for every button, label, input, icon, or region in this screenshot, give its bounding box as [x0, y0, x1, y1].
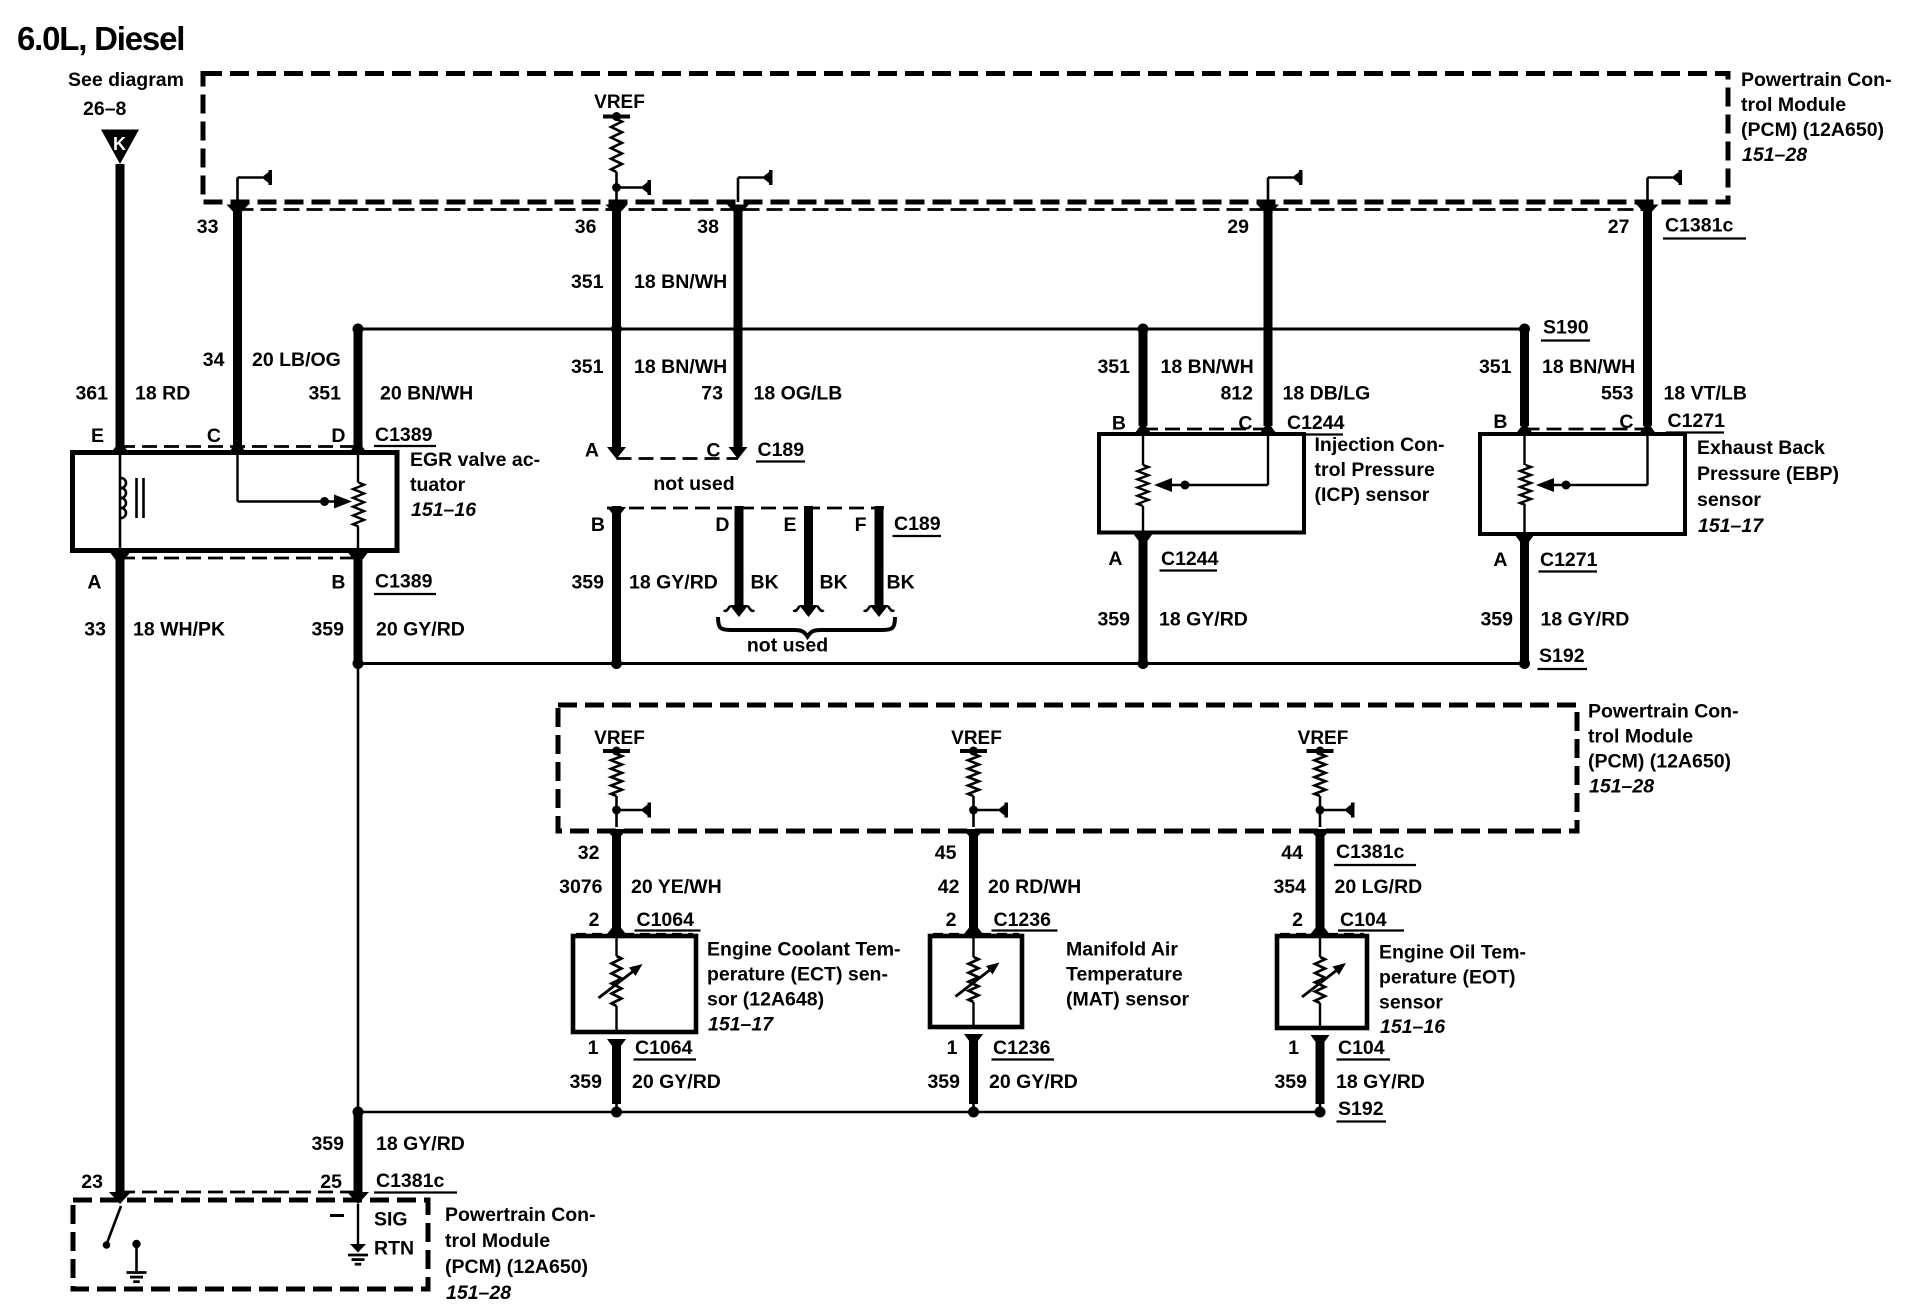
pin 45 label	[935, 842, 957, 864]
label 351 18 BN/WH (ICP)	[1097, 356, 1253, 378]
connector C1271 label (top)	[1666, 410, 1725, 433]
C1064 pin 2 arrow	[607, 922, 626, 936]
svg-text:18 GY/RD: 18 GY/RD	[1336, 1071, 1425, 1093]
svg-text:29: 29	[1227, 216, 1249, 238]
svg-text:A: A	[1493, 549, 1507, 571]
svg-text:45: 45	[935, 842, 957, 864]
C189 pin B label	[591, 514, 605, 536]
svg-text:trol Module: trol Module	[1588, 726, 1693, 748]
connector C1244 dashed line	[1143, 428, 1268, 431]
not used brace	[718, 617, 895, 637]
splice S190	[1519, 317, 1590, 341]
EGR pin A arrow	[111, 553, 130, 566]
svg-text:20 LG/RD: 20 LG/RD	[1335, 876, 1423, 898]
svg-text:359: 359	[311, 619, 344, 641]
svg-text:18 DB/LG: 18 DB/LG	[1283, 383, 1371, 405]
label 3076 20 YE/WH	[559, 876, 722, 898]
PCM pin 27 arm	[1648, 170, 1683, 202]
svg-text:B: B	[1493, 411, 1507, 433]
wire (return bus to bus 2 link)	[357, 664, 360, 1113]
svg-text:C1236: C1236	[994, 909, 1052, 931]
C189 pin D stub (BK, not used)	[724, 506, 754, 617]
svg-text:B: B	[1112, 413, 1126, 435]
wire 553 18 VT/LB (pin 27 to EBP C)	[1643, 206, 1652, 426]
wire 359 20 GY/RD (ECT)	[612, 1042, 621, 1112]
svg-text:18 BN/WH: 18 BN/WH	[1542, 356, 1635, 378]
title	[17, 20, 184, 57]
svg-text:S190: S190	[1543, 317, 1589, 339]
junction node at 617/329	[611, 324, 622, 335]
svg-text:(PCM) (12A650): (PCM) (12A650)	[1741, 119, 1884, 141]
svg-text:36: 36	[575, 216, 597, 238]
junction node at 973/1112	[968, 1107, 979, 1118]
label BK (pin E)	[820, 572, 848, 594]
svg-text:VREF: VREF	[1298, 728, 1349, 749]
connector C1064 label (bottom)	[634, 1037, 697, 1060]
internal switch (pin 23)	[103, 1206, 121, 1249]
label 359 20 GY/RD (MAT)	[927, 1071, 1077, 1093]
wire 359 18 GY/RD (EBP A to S192)	[1520, 539, 1529, 662]
C189 pin B arrow	[607, 507, 626, 519]
svg-text:C1064: C1064	[635, 1037, 693, 1059]
ICP pin C arrow	[1259, 422, 1278, 435]
ECT thermistor	[599, 936, 643, 1032]
label 359 18 GY/RD (ICP)	[1097, 609, 1247, 631]
svg-text:1: 1	[1288, 1037, 1299, 1059]
EGR pin D arrow	[349, 441, 368, 454]
pin 29 label	[1227, 216, 1249, 238]
svg-text:C: C	[1619, 411, 1633, 433]
MAT thermistor	[956, 936, 1000, 1027]
svg-text:K: K	[113, 134, 126, 154]
wire 359 20 GY/RD (EGR B to return bus)	[354, 554, 363, 662]
svg-text:18 BN/WH: 18 BN/WH	[634, 356, 727, 378]
pin 44 label	[1281, 842, 1303, 864]
C189 pin E label	[783, 514, 796, 536]
connector C1381c label (bottom)	[374, 1170, 457, 1193]
svg-text:RTN: RTN	[374, 1238, 414, 1260]
svg-text:BK: BK	[751, 572, 779, 594]
SIG RTN ground (pin 25)	[348, 1204, 368, 1264]
svg-text:trol Pressure: trol Pressure	[1315, 459, 1435, 481]
svg-text:Engine Oil Tem-: Engine Oil Tem-	[1379, 942, 1526, 964]
svg-text:1: 1	[947, 1037, 958, 1059]
svg-text:E: E	[783, 514, 796, 536]
EBP wiper (from pin C)	[1536, 434, 1648, 492]
svg-text:C1381c: C1381c	[376, 1170, 444, 1192]
label 351 18 BN/WH (upper)	[571, 271, 727, 293]
EGR pin C label	[207, 425, 221, 447]
svg-text:151–16: 151–16	[411, 499, 476, 521]
svg-text:C1064: C1064	[637, 909, 695, 931]
svg-text:151–28: 151–28	[1589, 776, 1654, 798]
svg-text:F: F	[855, 514, 867, 536]
VREF terminal (PCM middle, pin 32)	[594, 728, 645, 827]
svg-text:Injection Con-: Injection Con-	[1315, 434, 1445, 456]
ICP wiper (from pin C)	[1154, 434, 1268, 492]
svg-text:351: 351	[1097, 356, 1130, 378]
C189 pin E stub (BK, not used)	[794, 506, 824, 617]
svg-text:18 RD: 18 RD	[135, 383, 190, 405]
PCM top dashed box (Powertrain Control Module)	[203, 74, 1728, 203]
C189 pin D label	[715, 514, 729, 536]
connector C1381c dashed line (bottom)	[120, 1191, 358, 1194]
EGR pin E arrow	[111, 441, 130, 454]
svg-text:S192: S192	[1338, 1098, 1384, 1120]
svg-text:C1381c: C1381c	[1665, 215, 1733, 237]
label 812 18 DB/LG	[1220, 383, 1370, 405]
MAT pin 1 label	[947, 1037, 958, 1059]
svg-text:Powertrain Con-: Powertrain Con-	[1588, 701, 1739, 723]
connector C1236 label (top)	[992, 909, 1058, 931]
C104 pin 2 label	[1292, 909, 1303, 931]
svg-text:26–8: 26–8	[83, 98, 127, 120]
svg-text:359: 359	[1097, 609, 1130, 631]
PCM pin 45 arm	[969, 803, 1008, 818]
connector C1389 label (bottom)	[374, 571, 436, 595]
svg-text:BK: BK	[820, 572, 848, 594]
svg-text:VREF: VREF	[594, 92, 645, 113]
svg-text:2: 2	[946, 909, 957, 931]
EGR valve actuator box	[73, 453, 398, 551]
EGR pin B arrow	[349, 553, 368, 566]
svg-text:trol Module: trol Module	[445, 1230, 550, 1252]
svg-text:E: E	[91, 425, 104, 447]
svg-text:151–16: 151–16	[1380, 1016, 1445, 1038]
svg-text:20 LB/OG: 20 LB/OG	[252, 349, 341, 371]
svg-text:151–28: 151–28	[1742, 144, 1807, 166]
svg-text:(PCM) (12A650): (PCM) (12A650)	[445, 1256, 588, 1278]
pin 23 connector arrow	[109, 1192, 131, 1204]
junction node at 1143/663	[1138, 658, 1149, 669]
C189 pin A foot	[607, 447, 626, 459]
svg-text:C1389: C1389	[375, 424, 433, 446]
junction node at 358/663	[353, 658, 364, 669]
pin 36 connector arrow	[606, 205, 628, 217]
VREF terminal (PCM middle, pin 44)	[1298, 728, 1349, 827]
pin 23 label	[81, 1171, 103, 1193]
wire 351 18 BN/WH (pin 36 to bus)	[612, 206, 621, 326]
MAT pin 1 arrow	[964, 1034, 983, 1047]
svg-text:18 GY/RD: 18 GY/RD	[1541, 609, 1630, 631]
wire 351 18 BN/WH (bus to ICP B)	[1139, 331, 1148, 426]
splice S192 (upper)	[1519, 645, 1587, 669]
EOT connector dashes	[1280, 933, 1364, 935]
connector C1236 label (bottom)	[992, 1037, 1055, 1060]
EGR pin A label	[87, 572, 101, 594]
connector C1389 dashed line (top)	[120, 445, 358, 448]
ICP pin C label	[1238, 413, 1252, 435]
MAT connector dashes	[933, 933, 1019, 935]
EGR wiper (from pin C)	[238, 453, 353, 509]
pin 27 connector arrow	[1637, 205, 1659, 217]
wire 359 18 GY/RD (EOT)	[1316, 1038, 1325, 1112]
ECT connector dashes	[576, 933, 693, 935]
svg-text:18 GY/RD: 18 GY/RD	[376, 1133, 465, 1155]
svg-text:18 BN/WH: 18 BN/WH	[1161, 356, 1254, 378]
label 34 20 LB/OG	[203, 349, 341, 371]
PCM pin 36 arm	[612, 180, 651, 195]
pin 38 label	[697, 216, 719, 238]
svg-text:A: A	[1108, 548, 1122, 570]
svg-text:C: C	[207, 425, 221, 447]
connector C189 dashed line (lower)	[607, 507, 884, 510]
svg-text:Engine Coolant Tem-: Engine Coolant Tem-	[707, 939, 901, 961]
label 359 20 GY/RD	[311, 619, 464, 641]
VREF terminal (PCM middle, pin 45)	[951, 728, 1002, 827]
svg-text:perature (EOT): perature (EOT)	[1379, 967, 1516, 989]
connector C189 label (upper)	[756, 439, 805, 462]
svg-text:151–17: 151–17	[708, 1014, 774, 1036]
ICP pin B arrow	[1134, 422, 1153, 435]
wire 73 18 OG/LB (pin 38 to C189 C)	[734, 206, 743, 450]
svg-text:SIG: SIG	[374, 1209, 408, 1231]
connector K (triangle from diagram 26-8)	[101, 130, 139, 165]
connector C1389 dashed line (bottom)	[120, 557, 358, 560]
label 359 18 GY/RD (EOT)	[1274, 1071, 1424, 1093]
svg-text:20 GY/RD: 20 GY/RD	[376, 619, 465, 641]
VREF bus wire 351 (horizontal)	[358, 328, 1525, 331]
EOT label	[1379, 942, 1526, 1039]
signal return bus 2 (horizontal)	[358, 1111, 1320, 1114]
MAT sensor box	[930, 936, 1022, 1027]
wire 354 20 LG/RD	[1316, 833, 1325, 928]
ECT pin 1 arrow	[607, 1039, 626, 1052]
minus sign	[330, 1214, 344, 1217]
wire 361 18 RD (circuit K to EGR pin E)	[116, 164, 125, 447]
svg-text:151–28: 151–28	[446, 1282, 511, 1304]
svg-text:361: 361	[75, 383, 108, 405]
PCM bottom dashed box (Powertrain Control Module)	[73, 1200, 428, 1289]
junction node at 617/663	[611, 658, 622, 669]
connector C1271 label (bottom)	[1539, 549, 1598, 572]
ECT sensor box	[573, 936, 696, 1032]
pin 33 connector arrow	[227, 205, 249, 217]
EBP pin B arrow	[1515, 422, 1534, 435]
svg-text:VREF: VREF	[594, 728, 645, 749]
svg-text:2: 2	[1292, 909, 1303, 931]
C104 pin 2 arrow	[1311, 922, 1330, 936]
EGR pin B label	[331, 572, 345, 594]
C1381c label (top right)	[1663, 215, 1746, 239]
connector C1244 label (bottom)	[1160, 548, 1219, 571]
label 42 20 RD/WH	[938, 876, 1081, 898]
svg-text:20 BN/WH: 20 BN/WH	[380, 383, 473, 405]
pin 45 connector arrow	[963, 829, 985, 841]
svg-text:C1271: C1271	[1668, 410, 1726, 432]
C189 pin A label	[585, 440, 599, 462]
svg-text:354: 354	[1273, 876, 1306, 898]
svg-text:A: A	[87, 572, 101, 594]
connector C189 label (lower)	[893, 513, 942, 536]
PCM pin 44 arm	[1316, 803, 1355, 818]
svg-text:351: 351	[1479, 356, 1512, 378]
svg-text:351: 351	[308, 383, 341, 405]
svg-text:359: 359	[571, 572, 604, 594]
label 351 18 BN/WH (lower)	[571, 356, 727, 378]
wire 3076 20 YE/WH	[612, 833, 621, 928]
svg-text:not used: not used	[747, 635, 828, 657]
svg-text:25: 25	[320, 1171, 342, 1193]
in-line connector C1381c dashed line	[238, 208, 1648, 211]
svg-text:151–17: 151–17	[1698, 515, 1764, 537]
PCM middle label	[1588, 701, 1739, 798]
splice S192 (lower)	[1315, 1098, 1387, 1122]
label 553 18 VT/LB	[1601, 383, 1747, 405]
pin 32 connector arrow	[606, 829, 628, 841]
wire 351 18 BN/WH (S190 to EBP B)	[1520, 331, 1529, 426]
svg-text:Temperature: Temperature	[1066, 964, 1183, 986]
svg-text:20 GY/RD: 20 GY/RD	[632, 1071, 721, 1093]
svg-text:18 VT/LB: 18 VT/LB	[1664, 383, 1747, 405]
ICP sensor box	[1099, 434, 1304, 533]
label 354 20 LG/RD	[1273, 876, 1422, 898]
connector C104 label (bottom)	[1337, 1037, 1391, 1060]
ICP pin B label	[1112, 413, 1126, 435]
PCM pin 33 arm	[238, 170, 273, 202]
junction node at 358/1112	[353, 1107, 364, 1118]
C1381c label (middle)	[1334, 841, 1416, 865]
svg-text:C: C	[706, 440, 720, 462]
PCM bottom label	[445, 1204, 596, 1304]
connector C1244 label (top)	[1286, 412, 1345, 435]
pin 38 connector arrow	[727, 205, 749, 217]
label 361 18 RD	[75, 383, 190, 405]
svg-text:2: 2	[589, 909, 600, 931]
wire 33 18 WH/PK (EGR A down)	[116, 554, 125, 1192]
svg-text:C189: C189	[758, 439, 805, 461]
signal return bus wire 359 (horizontal)	[358, 662, 1525, 665]
svg-text:not used: not used	[653, 473, 734, 495]
EGR pin E label	[91, 425, 104, 447]
PCM pin 29 arm	[1268, 170, 1303, 202]
C1064 pin 2 label	[589, 909, 600, 931]
svg-text:sensor: sensor	[1379, 992, 1443, 1014]
svg-text:Powertrain Con-: Powertrain Con-	[445, 1204, 596, 1226]
svg-text:73: 73	[701, 383, 723, 405]
PCM middle dashed box (Powertrain Control Module)	[558, 705, 1577, 831]
label 33 18 WH/PK	[84, 619, 225, 641]
svg-text:D: D	[715, 514, 729, 536]
svg-text:351: 351	[571, 271, 604, 293]
pin 25 connector arrow	[347, 1192, 369, 1204]
ICP pin A label	[1108, 548, 1122, 570]
C1236 pin 2 arrow	[964, 922, 983, 936]
svg-text:Powertrain Con-: Powertrain Con-	[1741, 69, 1892, 91]
pin 27 label	[1608, 216, 1630, 238]
EBP pin C arrow	[1638, 422, 1657, 435]
ECT pin 1 label	[588, 1037, 599, 1059]
svg-text:C1236: C1236	[993, 1037, 1051, 1059]
MAT label	[1066, 939, 1190, 1011]
svg-text:trol Module: trol Module	[1741, 94, 1846, 116]
svg-text:C1244: C1244	[1287, 412, 1345, 434]
svg-text:(MAT) sensor: (MAT) sensor	[1066, 989, 1190, 1011]
EBP pin B label	[1493, 411, 1507, 433]
wire 351 18 BN/WH (bus to C189 A)	[612, 331, 621, 450]
svg-text:18 WH/PK: 18 WH/PK	[133, 619, 225, 641]
svg-text:See diagram: See diagram	[68, 69, 184, 91]
ICP pin A arrow	[1134, 534, 1153, 547]
svg-text:33: 33	[197, 216, 219, 238]
svg-text:351: 351	[571, 356, 604, 378]
junction node at 617/1112	[611, 1107, 622, 1118]
wire 359 18 GY/RD (bus 2 to PCM pin 25)	[354, 1112, 363, 1192]
connector C1389 label (top)	[374, 424, 436, 446]
svg-text:EGR valve ac-: EGR valve ac-	[410, 449, 540, 471]
svg-text:44: 44	[1281, 842, 1303, 864]
SIG RTN label	[374, 1209, 414, 1260]
svg-text:20 YE/WH: 20 YE/WH	[631, 876, 722, 898]
EBP sensor box	[1480, 434, 1685, 534]
EOT sensor box	[1277, 936, 1367, 1028]
pin 36 label	[575, 216, 597, 238]
svg-text:359: 359	[927, 1071, 960, 1093]
wire 359 18 GY/RD (ICP A to return bus)	[1139, 538, 1148, 662]
label 351 20 BN/WH	[308, 383, 473, 405]
EBP label	[1697, 437, 1839, 537]
svg-text:C1271: C1271	[1540, 549, 1598, 571]
label 351 18 BN/WH (EBP)	[1479, 356, 1635, 378]
svg-text:S192: S192	[1539, 645, 1585, 667]
connector C104 label (top)	[1338, 909, 1404, 931]
svg-text:C1389: C1389	[375, 571, 433, 593]
svg-text:18 BN/WH: 18 BN/WH	[634, 271, 727, 293]
EOT pin 1 arrow	[1311, 1035, 1330, 1048]
EGR position potentiometer	[353, 453, 364, 551]
EOT pin 1 label	[1288, 1037, 1299, 1059]
svg-text:(ICP) sensor: (ICP) sensor	[1315, 484, 1430, 506]
wire 20 BN/WH 351 (bus to EGR pin D)	[354, 331, 363, 447]
connector C1271 dashed line	[1525, 428, 1648, 431]
label BK (pin F)	[887, 572, 915, 594]
junction node at 1143/329	[1138, 324, 1149, 335]
svg-text:359: 359	[569, 1071, 602, 1093]
wire 359 20 GY/RD (MAT)	[969, 1037, 978, 1112]
pin 32 label	[578, 842, 600, 864]
not used note (upper)	[653, 473, 734, 495]
wire 812 18 DB/LG (pin 29 to ICP C)	[1264, 206, 1273, 426]
connector C189 dashed line (upper)	[617, 457, 739, 460]
EGR pin D label	[331, 425, 345, 447]
wire 42 20 RD/WH	[969, 833, 978, 928]
svg-text:sor (12A648): sor (12A648)	[707, 989, 824, 1011]
ICP label	[1315, 434, 1445, 506]
label 359 18 GY/RD (pin 25)	[311, 1133, 464, 1155]
wire 34 20 LB/OG (pin 33 to EGR pin C)	[233, 206, 242, 447]
connector C1064 label (top)	[635, 909, 701, 931]
svg-text:18 GY/RD: 18 GY/RD	[629, 572, 718, 594]
C189 pin F stub (BK, not used)	[864, 506, 894, 617]
svg-text:38: 38	[697, 216, 719, 238]
internal ground (switch side)	[127, 1240, 147, 1282]
svg-text:1: 1	[588, 1037, 599, 1059]
svg-text:C1381c: C1381c	[1336, 841, 1404, 863]
PCM pin 32 arm	[612, 803, 651, 818]
svg-text:Pressure (EBP): Pressure (EBP)	[1697, 463, 1839, 485]
label 359 20 GY/RD (ECT)	[569, 1071, 720, 1093]
svg-text:Exhaust Back: Exhaust Back	[1697, 437, 1825, 459]
svg-text:A: A	[585, 440, 599, 462]
not used note (lower)	[747, 635, 828, 657]
EGR pin C arrow	[228, 441, 247, 454]
C189 pin C label	[706, 440, 720, 462]
svg-text:C189: C189	[894, 513, 941, 535]
svg-text:20 GY/RD: 20 GY/RD	[989, 1071, 1078, 1093]
svg-text:B: B	[331, 572, 345, 594]
note see diagram 26-8	[68, 69, 184, 120]
svg-text:perature (ECT) sen-: perature (ECT) sen-	[707, 964, 888, 986]
